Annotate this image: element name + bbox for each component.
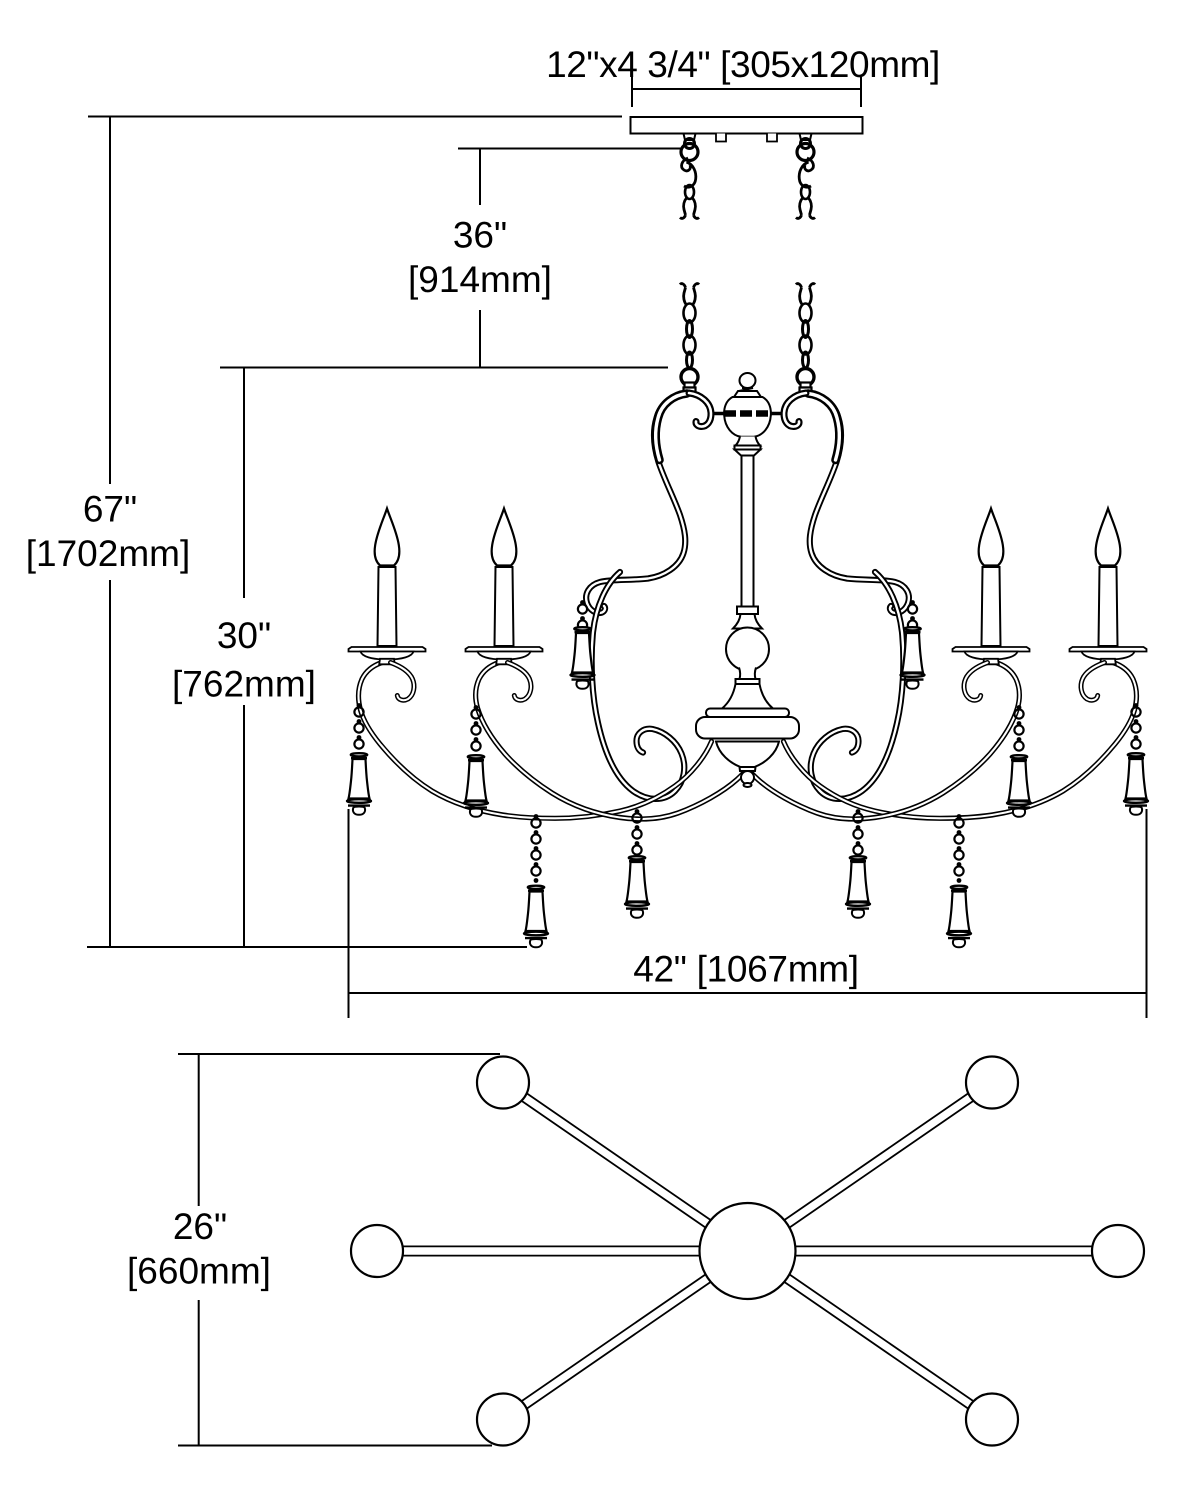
extension line 36in top	[458, 148, 681, 150]
svg-text:12"x4 3/4" [305x120mm]: 12"x4 3/4" [305x120mm]	[546, 44, 940, 85]
pendant 5 harp waist	[571, 627, 595, 689]
plan lamp circle bottom-right	[966, 1394, 1018, 1446]
candle 1 (outer left)	[349, 509, 426, 665]
svg-text:42" [1067mm]: 42" [1067mm]	[633, 949, 858, 990]
ball neck lower	[739, 668, 756, 680]
bell flare	[722, 684, 773, 709]
plan lamp circle top-right	[966, 1057, 1018, 1109]
bar dashes across urn	[724, 410, 771, 417]
plan spoke bottom-left	[522, 1275, 711, 1409]
svg-text:[914mm]: [914mm]	[408, 259, 552, 300]
plan view center hub	[700, 1203, 796, 1299]
plan spoke top-left	[522, 1094, 711, 1228]
pendant 1 under outer candle	[347, 753, 371, 815]
dimension line 67in vertical	[109, 117, 111, 948]
svg-text:36": 36"	[453, 215, 507, 256]
pendant 2 under inner candle chain	[471, 705, 480, 751]
dimension line 42in	[349, 992, 1147, 994]
extension line 67in top	[88, 116, 622, 118]
svg-text:26": 26"	[173, 1206, 227, 1247]
hub upper lip	[706, 709, 789, 718]
plan spoke left	[403, 1246, 700, 1255]
bottom knob	[741, 771, 754, 784]
bottom cone	[716, 742, 779, 768]
plan lamp circle bottom-left	[477, 1394, 529, 1446]
hub underside	[714, 739, 781, 742]
pendant 3 long-chain	[524, 886, 548, 948]
pendant 2 under inner candle	[464, 755, 488, 817]
canopy tab left	[716, 134, 726, 142]
hub disc	[696, 717, 799, 739]
extension line 26in top	[178, 1053, 500, 1055]
svg-text:67": 67"	[83, 489, 137, 530]
right half of chandelier (mirrored)	[748, 134, 1149, 948]
extension line 42in left	[348, 809, 350, 1018]
svg-text:[1702mm]: [1702mm]	[26, 533, 191, 574]
pendant 1 under outer candle chain	[354, 703, 363, 749]
arm to inner candle (A2)	[476, 663, 748, 820]
svg-text:30": 30"	[217, 615, 271, 656]
hanging chain to harp left	[680, 284, 699, 393]
extension line 26in bottom	[178, 1445, 492, 1447]
svg-text:[660mm]: [660mm]	[127, 1251, 271, 1292]
harp scroll upper bend (thick)	[656, 394, 687, 461]
plan spoke bottom-right	[784, 1275, 973, 1409]
stem collar	[737, 607, 758, 615]
plan spoke top-right	[784, 1094, 973, 1228]
dimension line 30in vertical	[243, 368, 245, 948]
extension line 42in right	[1146, 809, 1148, 1018]
finial top knob	[740, 373, 756, 388]
stem flare	[735, 450, 761, 456]
finial collar	[734, 391, 761, 397]
canopy chain left	[680, 134, 699, 219]
harp scroll top hook	[689, 393, 711, 427]
dimension line canopy width	[632, 77, 861, 107]
center ball	[726, 628, 769, 671]
pendant 4 mid-chain chain	[632, 809, 641, 855]
plan lamp circle left	[351, 1225, 403, 1277]
arm to outer candle (A1)	[359, 663, 712, 819]
plan lamp circle right	[1092, 1225, 1144, 1277]
svg-text:[762mm]: [762mm]	[172, 664, 316, 705]
stem	[742, 456, 754, 607]
pendant 4 mid-chain	[625, 856, 649, 918]
pendant 5 harp waist chain	[578, 600, 587, 630]
urn neck	[736, 437, 761, 446]
canopy plate	[631, 117, 863, 134]
urn body	[724, 397, 771, 437]
canopy tab right	[767, 134, 777, 142]
ball neck upper	[733, 614, 762, 629]
left half of chandelier	[347, 134, 748, 948]
plan lamp circle top-left	[477, 1057, 529, 1109]
harp scroll upper S	[586, 393, 689, 613]
extension line 36in bottom / 30in top	[220, 367, 668, 369]
candle 2 (inner left)	[466, 509, 543, 665]
pendant 3 long-chain chain	[531, 814, 540, 883]
harp scroll lower C	[592, 572, 685, 799]
dimension line 26in vertical	[198, 1054, 200, 1446]
finial knob base	[739, 388, 756, 391]
plan spoke right	[796, 1246, 1093, 1255]
dimension line 36in vertical	[479, 149, 481, 368]
arm mounting bar	[713, 412, 782, 415]
extension line bottom reference	[87, 946, 527, 948]
